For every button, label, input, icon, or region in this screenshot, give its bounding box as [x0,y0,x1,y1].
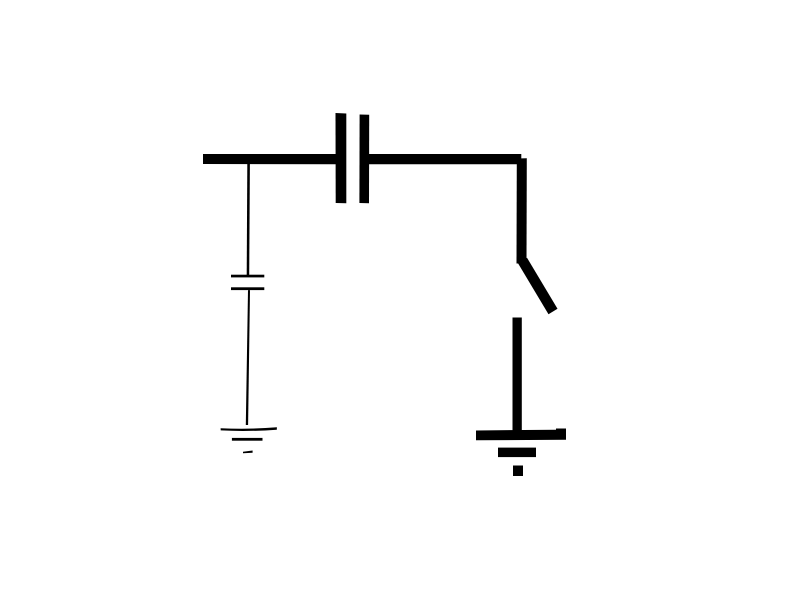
ground GND1 top bar [476,429,566,441]
wire top-left horizontal [203,154,336,164]
capacitor C1 left plate [336,113,347,203]
capacitor C1 right plate [359,115,369,204]
ground GND2 top line [221,427,277,431]
ground GND1 middle bar [498,448,536,458]
ground GND2 bottom dash [243,451,253,454]
switch SW1 blade [523,261,554,312]
ground GND1 bottom square [513,466,523,477]
wire left vertical upper (thin) [247,164,250,275]
capacitor C2 top plate [231,275,264,278]
wire lower-right vertical [513,318,522,432]
wire right vertical [517,158,527,263]
capacitor C2 bottom plate [231,287,264,290]
ground GND2 middle line [232,438,263,441]
wire top-right horizontal [369,154,521,164]
wire left vertical lower (thin) [246,290,250,425]
